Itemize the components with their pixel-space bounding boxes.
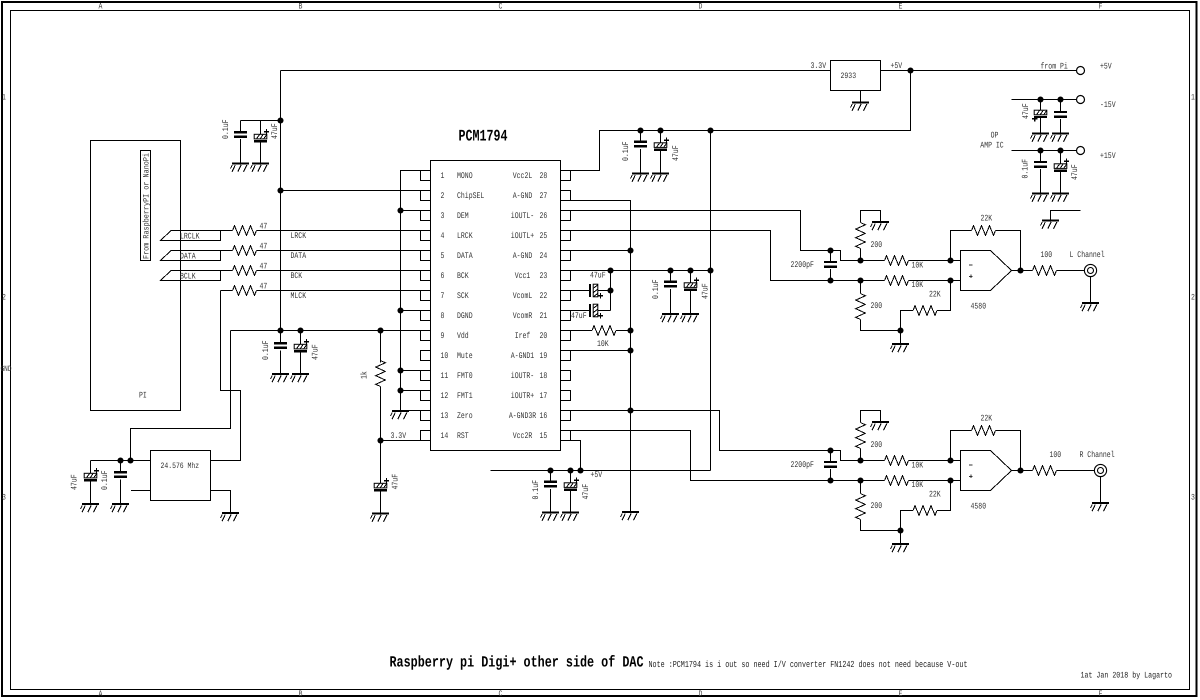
junction Vdd rail 1k bbox=[377, 327, 383, 333]
wire 3.3V to regulator input bbox=[281, 70, 831, 72]
resistor 47 (DATA) bbox=[233, 242, 268, 256]
capacitor 0.1uF (+5V Vcc2L) bbox=[621, 131, 647, 174]
pin 6 BCK bbox=[421, 271, 470, 282]
terminal +5V from Pi bbox=[1077, 62, 1113, 75]
junction +5V 0.1uF bbox=[637, 127, 643, 133]
wire iOUTL+ from pin 25 bbox=[571, 231, 885, 281]
svg-text:MLCK: MLCK bbox=[291, 291, 307, 301]
junction 3.3V bus top cap node bbox=[277, 117, 283, 123]
svg-text:14: 14 bbox=[441, 431, 449, 441]
svg-text:200: 200 bbox=[871, 240, 883, 250]
junction +5V rail pin15 bbox=[577, 467, 583, 473]
svg-text:Vcc1: Vcc1 bbox=[515, 271, 531, 281]
resistor 200 lower (R channel) bbox=[856, 481, 901, 531]
pin 18 iOUTR- bbox=[511, 371, 571, 382]
svg-text:DEM: DEM bbox=[457, 211, 469, 221]
svg-text:0.1uF: 0.1uF bbox=[261, 341, 271, 361]
svg-text:24: 24 bbox=[540, 251, 548, 261]
svg-text:3: 3 bbox=[1191, 493, 1195, 503]
svg-text:FMT1: FMT1 bbox=[457, 391, 473, 401]
wire jack ground L bbox=[1090, 277, 1092, 303]
svg-text:iOUTL-: iOUTL- bbox=[511, 211, 534, 221]
svg-text:200: 200 bbox=[871, 440, 883, 450]
wire DATA to PCM1794 bbox=[257, 250, 421, 252]
svg-text:15: 15 bbox=[540, 431, 548, 441]
resistor 100 (L channel) bbox=[1012, 250, 1085, 275]
label +5V bbox=[891, 61, 903, 71]
svg-text:LRCK: LRCK bbox=[457, 231, 473, 241]
svg-text:1: 1 bbox=[1191, 93, 1195, 103]
wire +5V distribution bbox=[571, 71, 911, 171]
svg-text:+5V: +5V bbox=[591, 470, 603, 480]
ground (jack L) bbox=[1081, 303, 1100, 311]
capacitor 47uF (-15V) bbox=[1021, 100, 1047, 134]
svg-text:28: 28 bbox=[540, 171, 548, 181]
connector R Channel jack bbox=[1080, 450, 1115, 477]
resistor 10K (Iref) bbox=[571, 326, 631, 349]
wire -15V rail bbox=[1012, 99, 1077, 101]
wire analog ground bus bbox=[571, 201, 631, 512]
wire Vdd rail to crystal supply bbox=[131, 331, 231, 461]
svg-text:A-GND3R: A-GND3R bbox=[509, 411, 536, 421]
junction op-amp output R bbox=[1017, 467, 1023, 473]
svg-text:Raspberry pi Digi+ other side: Raspberry pi Digi+ other side of DAC bbox=[390, 654, 644, 672]
capacitor 47uF (Vdd rail) bbox=[294, 331, 321, 374]
svg-text:DATA: DATA bbox=[291, 251, 307, 261]
svg-text:Note :PCM1794 is i out so need: Note :PCM1794 is i out so need I/V conve… bbox=[649, 659, 968, 670]
svg-text:1at Jan 2018 by Lagarto: 1at Jan 2018 by Lagarto bbox=[1081, 671, 1173, 681]
svg-text:22K: 22K bbox=[929, 290, 941, 300]
junction Vcc1 0.1uF bbox=[667, 267, 673, 273]
svg-text:SCK: SCK bbox=[457, 291, 469, 301]
label from Pi bbox=[1041, 62, 1068, 72]
svg-text:10K: 10K bbox=[912, 261, 924, 271]
svg-text:11: 11 bbox=[441, 371, 449, 381]
svg-text:FMT0: FMT0 bbox=[457, 371, 473, 381]
svg-text:4: 4 bbox=[441, 231, 445, 241]
wire jack ground R bbox=[1100, 477, 1102, 503]
resistor 10K minus (R channel) bbox=[885, 456, 961, 466]
ground (47uF -15V) bbox=[1031, 134, 1050, 142]
svg-text:from Pi: from Pi bbox=[1041, 62, 1068, 72]
note PCM1794 I/V converter bbox=[649, 659, 968, 670]
capacitor 47uF (Vcc1) bbox=[684, 271, 711, 314]
junction 200 lower L bbox=[857, 277, 863, 283]
svg-text:Iref: Iref bbox=[515, 331, 531, 341]
signal flag LRCLK bbox=[161, 231, 221, 242]
junction A-GND Iref bbox=[627, 327, 633, 333]
junction minus input R bbox=[947, 457, 953, 463]
svg-text:27: 27 bbox=[540, 191, 548, 201]
junction tie-down bus y370 bbox=[397, 367, 403, 373]
svg-text:0.1uF: 0.1uF bbox=[531, 480, 541, 500]
ground (op amp reference) bbox=[1041, 221, 1060, 229]
pin 7 SCK bbox=[421, 291, 470, 302]
label OP AMP IC bbox=[980, 131, 1003, 151]
capacitor 0.1uF (3.3V top) bbox=[221, 120, 247, 164]
pin 21 VcomR bbox=[513, 311, 571, 322]
wire Vcom column bbox=[610, 271, 612, 311]
net label DATA bbox=[291, 251, 307, 261]
svg-text:100: 100 bbox=[1041, 250, 1053, 260]
wire tie-down bus (MONO DEM DGND FMT0 FMT1 Zero) bbox=[401, 171, 421, 411]
terminal -15V bbox=[1077, 96, 1117, 111]
junction plus input L bbox=[947, 277, 953, 283]
net label GND on left border bbox=[1, 365, 12, 374]
pin 11 FMT0 bbox=[421, 371, 473, 382]
svg-text:Zero: Zero bbox=[457, 411, 473, 421]
wire pin 15 Vcc2R to +5V rail bbox=[571, 441, 581, 471]
wire regulator ground bbox=[860, 91, 862, 103]
junction 2200pF top R bbox=[827, 447, 833, 453]
svg-text:47uF: 47uF bbox=[270, 123, 280, 139]
svg-text:A-GND: A-GND bbox=[513, 251, 533, 261]
wire 3.3V node to pin 14 RST bbox=[381, 440, 421, 442]
node 3.3V at pin 14 bbox=[377, 431, 406, 444]
svg-text:A-GND: A-GND bbox=[513, 191, 533, 201]
capacitor 0.1uF (Vdd rail) bbox=[261, 331, 287, 374]
junction +15V 0.1uF bbox=[1037, 147, 1043, 153]
junction Vcc1 Vcom column bbox=[607, 267, 613, 273]
svg-text:+15V: +15V bbox=[1100, 151, 1116, 161]
pin 9 Vdd bbox=[421, 331, 469, 342]
svg-text:RST: RST bbox=[457, 431, 469, 441]
junction A-GND pin19 bbox=[627, 347, 633, 353]
capacitor 47uF (+5V Vcc2L) bbox=[654, 131, 681, 174]
junction 200 lower R bbox=[857, 477, 863, 483]
stub crystal enable left bbox=[131, 490, 151, 492]
svg-text:0.1uF: 0.1uF bbox=[1021, 159, 1031, 179]
junction 2200pF top L bbox=[827, 247, 833, 253]
pin 2 ChipSEL bbox=[421, 191, 485, 202]
ground (0.1uF Vdd) bbox=[271, 374, 290, 382]
svg-text:BCK: BCK bbox=[457, 271, 469, 281]
capacitor 2200pF (R channel) bbox=[791, 451, 838, 481]
svg-text:E: E bbox=[899, 689, 903, 699]
ground (200 upper R) bbox=[871, 422, 890, 430]
svg-text:Vcc2R: Vcc2R bbox=[513, 431, 533, 441]
svg-text:5: 5 bbox=[441, 251, 445, 261]
svg-text:BCLK: BCLK bbox=[180, 272, 196, 282]
svg-text:2: 2 bbox=[441, 191, 445, 201]
svg-text:47uF: 47uF bbox=[1070, 164, 1080, 180]
junction VcomL bbox=[607, 287, 613, 293]
vertical text From RaspberryPI or NanoPi bbox=[143, 153, 152, 259]
svg-text:0.1uF: 0.1uF bbox=[221, 120, 231, 140]
wire BCK to PCM1794 bbox=[257, 270, 421, 272]
pin 1 MONO bbox=[421, 171, 473, 182]
resistor 100 (R channel) bbox=[1012, 450, 1095, 475]
svg-text:23: 23 bbox=[540, 271, 548, 281]
junction plus input R bbox=[947, 477, 953, 483]
capacitor 47uF (3.3V top) bbox=[254, 121, 280, 164]
ground (200 upper L) bbox=[871, 222, 890, 230]
capacitor 0.1uF (+15V) bbox=[1021, 151, 1048, 194]
wire Vcc bus vertical bbox=[710, 131, 712, 471]
svg-text:13: 13 bbox=[441, 411, 449, 421]
wire pin 13 Zero to ground bbox=[401, 410, 421, 412]
net label LRCK bbox=[291, 231, 307, 241]
pin 16 A-GND3R bbox=[509, 411, 571, 422]
svg-text:0.1uF: 0.1uF bbox=[621, 142, 631, 162]
ground (47uF Vcc1) bbox=[681, 314, 700, 322]
svg-text:20: 20 bbox=[540, 331, 548, 341]
svg-text:B: B bbox=[299, 689, 303, 699]
junction +5V rail 0.1uF bbox=[547, 467, 553, 473]
svg-text:3: 3 bbox=[2, 493, 6, 503]
wire crystal output to MLCK bbox=[211, 291, 241, 461]
svg-text:-15V: -15V bbox=[1100, 100, 1116, 110]
resistor 22K feedback (R channel) bbox=[951, 414, 1021, 471]
svg-text:OP: OP bbox=[991, 131, 999, 141]
junction Vcc1 Vcc bus bbox=[707, 267, 713, 273]
pin 14 RST bbox=[421, 431, 469, 442]
junction 2200pF bottom L bbox=[827, 277, 833, 283]
svg-text:R Channel: R Channel bbox=[1080, 450, 1115, 460]
svg-text:0.1uF: 0.1uF bbox=[651, 280, 661, 300]
svg-text:0.1uF: 0.1uF bbox=[100, 471, 110, 491]
wire +5V output to from Pi terminal bbox=[881, 70, 1077, 72]
svg-text:47uF: 47uF bbox=[391, 474, 401, 490]
svg-text:10: 10 bbox=[441, 351, 449, 361]
resistor 22K feedback (L channel) bbox=[951, 214, 1021, 271]
junction +5V 47uF bbox=[657, 127, 663, 133]
wire to ground 200 lower L bbox=[900, 331, 902, 344]
pin 20 Iref bbox=[515, 331, 571, 342]
junction +5V drop bbox=[907, 67, 913, 73]
svg-text:PCM1794: PCM1794 bbox=[459, 128, 508, 146]
pin 19 A-GND1 bbox=[511, 351, 571, 362]
label +5V rail bbox=[591, 470, 603, 480]
svg-text:1k: 1k bbox=[360, 371, 370, 379]
ground (47uF 3.3V top) bbox=[251, 164, 270, 172]
ground (0.1uF Vcc1) bbox=[661, 314, 680, 322]
svg-text:2200pF: 2200pF bbox=[791, 460, 814, 470]
svg-text:10K: 10K bbox=[912, 461, 924, 471]
ground (0.1uF 3.3V top) bbox=[231, 164, 250, 172]
junction Vdd rail 47uF bbox=[297, 327, 303, 333]
svg-text:10K: 10K bbox=[597, 339, 609, 349]
svg-text:3.3V: 3.3V bbox=[811, 61, 827, 71]
ground (analog ground bus) bbox=[621, 512, 640, 520]
svg-text:1: 1 bbox=[441, 171, 445, 181]
svg-text:E: E bbox=[899, 2, 903, 12]
junction +5V rail 47uF bbox=[567, 467, 573, 473]
resistor 22K plus (L channel) bbox=[901, 281, 951, 331]
wire tie-down branch y390 bbox=[401, 390, 421, 392]
svg-text:iOUTR-: iOUTR- bbox=[511, 371, 534, 381]
pin 17 iOUTR+ bbox=[511, 391, 571, 402]
frame column labels bottom bbox=[99, 689, 1103, 699]
wire +5V rail (Vcc2R) bbox=[491, 470, 711, 472]
capacitor 47uF (VcomL) bbox=[571, 271, 611, 299]
svg-text:7: 7 bbox=[441, 291, 445, 301]
label 3.3V at regulator bbox=[811, 61, 827, 71]
frame row labels right bbox=[1191, 93, 1195, 503]
ground (tie-down bus) bbox=[391, 411, 410, 419]
svg-text:22K: 22K bbox=[929, 490, 941, 500]
pin 4 LRCK bbox=[421, 231, 474, 242]
svg-text:22K: 22K bbox=[981, 214, 993, 224]
junction 200 upper R bbox=[857, 457, 863, 463]
resistor 200 upper (L channel) bbox=[856, 211, 883, 261]
svg-text:4580: 4580 bbox=[971, 502, 987, 512]
svg-text:47uF: 47uF bbox=[671, 145, 681, 161]
wire LRCK to PCM1794 bbox=[257, 230, 421, 232]
svg-text:1: 1 bbox=[2, 93, 6, 103]
wire pin 19 A-GND1 bbox=[571, 350, 631, 352]
svg-text:VcomR: VcomR bbox=[513, 311, 533, 321]
wire iOUTR- from pin 18 bbox=[571, 411, 885, 461]
junction tie-down bus y390 bbox=[397, 387, 403, 393]
pin 15 Vcc2R bbox=[513, 431, 571, 442]
junction A-GND pin16 bbox=[627, 407, 633, 413]
wire iOUTR+ from pin 17 bbox=[571, 431, 885, 481]
junction crystal supply 0.1uF bbox=[117, 457, 123, 463]
svg-text:10K: 10K bbox=[912, 280, 924, 290]
svg-text:C: C bbox=[499, 2, 503, 12]
capacitor (-15V second) bbox=[1054, 100, 1067, 134]
svg-text:26: 26 bbox=[540, 211, 548, 221]
svg-text:+5V: +5V bbox=[1100, 62, 1112, 72]
svg-text:22: 22 bbox=[540, 291, 548, 301]
svg-text:100: 100 bbox=[1050, 450, 1062, 460]
wire cap node to 3.3V bus bbox=[241, 120, 281, 122]
wire 3.3V bus vertical bbox=[280, 71, 282, 331]
junction 200 upper L bbox=[857, 257, 863, 263]
connector L Channel jack bbox=[1070, 250, 1105, 277]
ground (47uF +15V) bbox=[1051, 194, 1070, 202]
resistor 47 (BCK) bbox=[233, 262, 268, 276]
wire pin 23 Vcc1 to Vcc bus bbox=[571, 270, 711, 272]
wire 3.3V to pin 2 ChipSEL bbox=[281, 190, 421, 192]
svg-text:A-GND1: A-GND1 bbox=[511, 351, 534, 361]
junction -15V 47uF bbox=[1037, 96, 1043, 102]
wire crystal pin to ground bbox=[211, 491, 231, 513]
pin 10 Mute bbox=[421, 351, 473, 362]
svg-text:47uF: 47uF bbox=[311, 344, 321, 360]
pin 25 iOUTL+ bbox=[511, 231, 571, 242]
pin 24 A-GND bbox=[513, 251, 571, 262]
svg-text:ChipSEL: ChipSEL bbox=[457, 191, 484, 201]
svg-text:iOUTR+: iOUTR+ bbox=[511, 391, 534, 401]
wire to ground 200 lower R bbox=[900, 531, 902, 544]
resistor 1k bbox=[360, 331, 386, 441]
resistor 10K plus (L channel) bbox=[885, 276, 961, 286]
resistor 22K plus (R channel) bbox=[901, 481, 951, 531]
signal flag BCLK bbox=[161, 271, 221, 282]
terminal +15V bbox=[1077, 147, 1117, 162]
svg-text:6: 6 bbox=[441, 271, 445, 281]
wire pin 16 A-GND3R bbox=[571, 410, 631, 412]
label box From RaspberryPI or NanoPi bbox=[141, 151, 151, 261]
ground (47uF crystal) bbox=[81, 504, 100, 512]
svg-text:PI: PI bbox=[139, 391, 147, 401]
svg-text:47uF: 47uF bbox=[571, 311, 587, 321]
wire crystal supply bbox=[91, 460, 151, 462]
junction tie-down bus y210 bbox=[397, 207, 403, 213]
junction Vcc1 47uF bbox=[687, 267, 693, 273]
pin 8 DGND bbox=[421, 311, 473, 322]
svg-text:DATA: DATA bbox=[457, 251, 473, 261]
svg-text:From RaspberryPI or NanoPi: From RaspberryPI or NanoPi bbox=[143, 153, 152, 259]
svg-text:BCK: BCK bbox=[291, 271, 303, 281]
svg-text:VcomL: VcomL bbox=[513, 291, 533, 301]
wire MLCK to PCM1794 bbox=[257, 290, 421, 292]
resistor 47 (MLCK) bbox=[233, 282, 268, 296]
title Raspberry pi Digi+ other side of DAC bbox=[390, 654, 644, 672]
resistor 200 lower (L channel) bbox=[856, 281, 901, 331]
capacitor 47uF (3.3V node) bbox=[374, 441, 401, 514]
pin 13 Zero bbox=[421, 411, 473, 422]
date 1at Jan 2018 by Lagarto bbox=[1081, 671, 1173, 681]
op-amp 4580 (R channel) bbox=[961, 451, 1012, 512]
svg-text:47uF: 47uF bbox=[701, 283, 711, 299]
svg-text:16: 16 bbox=[540, 411, 548, 421]
ground (0.1uF crystal) bbox=[111, 504, 130, 512]
svg-text:2200pF: 2200pF bbox=[791, 260, 814, 270]
ground (0.1uF +15V) bbox=[1031, 194, 1050, 202]
svg-text:9: 9 bbox=[441, 331, 445, 341]
wire +15V rail bbox=[1012, 150, 1077, 152]
net label BCK bbox=[291, 271, 303, 281]
svg-text:3: 3 bbox=[441, 211, 445, 221]
svg-text:C: C bbox=[499, 689, 503, 699]
svg-text:GND: GND bbox=[1, 365, 12, 374]
svg-text:F: F bbox=[1099, 689, 1103, 699]
ground (2933) bbox=[851, 103, 870, 111]
junction 2200pF bottom R bbox=[827, 477, 833, 483]
wire Vdd rail 3.3V bbox=[231, 330, 421, 332]
junction +5V Vcc bus bbox=[707, 127, 713, 133]
pin 28 Vcc2L bbox=[513, 171, 571, 182]
junction -15V cap2 bbox=[1057, 96, 1063, 102]
svg-text:+5V: +5V bbox=[891, 61, 903, 71]
capacitor 0.1uF (+5V rail) bbox=[531, 471, 557, 513]
signal flag DATA bbox=[161, 251, 221, 262]
net label MLCK bbox=[291, 291, 307, 301]
junction 200 lower ground L bbox=[897, 327, 903, 333]
frame column labels top bbox=[99, 2, 1103, 12]
junction minus input L bbox=[947, 257, 953, 263]
ground (0.1uF Vcc2L) bbox=[631, 174, 650, 182]
svg-text:18: 18 bbox=[540, 371, 548, 381]
svg-text:Vcc2L: Vcc2L bbox=[513, 171, 533, 181]
wire op amp reference ground bbox=[1051, 211, 1081, 221]
svg-text:21: 21 bbox=[540, 311, 548, 321]
PI box (Raspberry Pi) bbox=[91, 141, 181, 411]
capacitor 47uF (VcomR) bbox=[571, 304, 611, 321]
pin 5 DATA bbox=[421, 251, 474, 262]
wire iOUTL- from pin 26 bbox=[571, 211, 885, 261]
wire tie-down branch y210 bbox=[401, 210, 421, 212]
junction +15V 47uF bbox=[1057, 147, 1063, 153]
IC U1 PCM1794 body bbox=[431, 161, 561, 451]
pin 22 VcomL bbox=[513, 291, 571, 302]
ground (jack R) bbox=[1091, 503, 1110, 511]
frame row labels left bbox=[2, 93, 6, 503]
svg-text:D: D bbox=[699, 2, 703, 12]
junction Vdd rail bus bbox=[277, 327, 283, 333]
ground (200 lower R) bbox=[891, 544, 910, 552]
svg-text:47uF: 47uF bbox=[581, 484, 591, 500]
svg-text:3.3V: 3.3V bbox=[391, 431, 407, 441]
ground (47uF Vcc2L) bbox=[651, 174, 670, 182]
pin 26 iOUTL- bbox=[511, 211, 571, 222]
svg-text:L Channel: L Channel bbox=[1070, 250, 1105, 260]
svg-text:MONO: MONO bbox=[457, 171, 473, 181]
svg-text:25: 25 bbox=[540, 231, 548, 241]
